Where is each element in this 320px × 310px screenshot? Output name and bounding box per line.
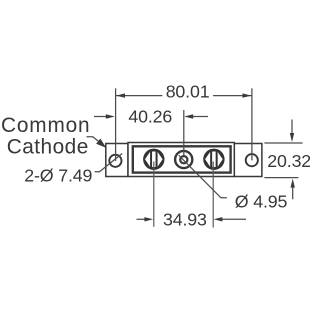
svg-text:Common: Common (1, 114, 90, 137)
extension line right (80.01) (251, 88, 253, 160)
left tab hole (2-Ø7.49) (109, 155, 121, 167)
left mounting tab (106, 144, 128, 177)
body inner rectangle (133, 146, 231, 172)
right tab hole (2-Ø7.49) (246, 154, 258, 166)
middle hole inner circle (180, 156, 187, 163)
34.93 extension line right (from right screw center) (212, 162, 214, 228)
svg-text:20.32: 20.32 (267, 151, 310, 171)
extension line middle (40.26) (183, 110, 185, 156)
2-Ø7.49 leader line (95, 154, 123, 172)
Ø4.95 leader line (179, 155, 227, 198)
svg-text:Cathode: Cathode (7, 135, 89, 158)
40.26 right arrow (outside, pointing left) (193, 116, 208, 118)
80.01 dimension line left segment + arrow (116, 95, 162, 97)
20.32 top extension line (264, 142, 302, 144)
right mounting tab (234, 144, 262, 177)
34.93 right arrow (outside, pointing left) (222, 218, 246, 220)
80.01 dimension line right segment + arrow (213, 95, 251, 97)
svg-text:Ø 4.95: Ø 4.95 (235, 191, 288, 211)
34.93 left arrow (outside, pointing right) (137, 218, 146, 220)
extension line left (80.01/40.26) (115, 88, 117, 161)
left terminal screw (143, 149, 164, 170)
34.93 extension line left (from left screw center) (153, 162, 155, 227)
right terminal screw (203, 149, 224, 170)
svg-text:80.01: 80.01 (166, 82, 210, 102)
svg-text:2-Ø 7.49: 2-Ø 7.49 (24, 165, 92, 185)
20.32 bottom arrow (pointing up) (292, 187, 294, 199)
svg-text:40.26: 40.26 (128, 107, 172, 127)
middle hole (Ø4.95) outer circle (175, 151, 192, 168)
body outer rectangle (128, 143, 234, 177)
20.32 top arrow (pointing down) (291, 120, 293, 135)
40.26 left arrow (outside, pointing right) (94, 116, 106, 118)
Common Cathode leader + arrow (87, 137, 100, 142)
svg-text:34.93: 34.93 (163, 210, 207, 230)
20.32 bottom extension line (264, 177, 298, 179)
